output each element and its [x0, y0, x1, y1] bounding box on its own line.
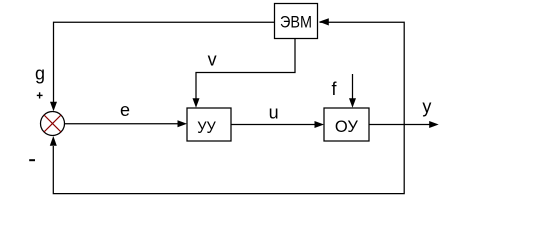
summing junction [41, 112, 65, 136]
arrowhead into УУ left side [178, 120, 188, 127]
svg-text:УУ: УУ [197, 118, 216, 137]
block УУ (control unit) [187, 108, 231, 141]
summing junction red X stroke 2 [44, 115, 61, 132]
wire f: disturbance input into ОУ top [352, 74, 354, 99]
wire g: top reference input line [54, 22, 275, 102]
arrowhead into ОУ top [349, 98, 356, 108]
svg-text:u: u [269, 103, 279, 123]
arrowhead output y [429, 121, 439, 128]
wire e: summing junction to УУ [65, 123, 179, 125]
svg-text:ЭВМ: ЭВМ [280, 13, 312, 32]
svg-text:ОУ: ОУ [335, 117, 358, 136]
wire feedback: right vertical + top horizontal into ЭВМ + bottom horizontal + left vertical [53, 22, 404, 193]
label plus sign [37, 94, 43, 96]
svg-text:v: v [208, 50, 217, 70]
wire v: ЭВМ bottom to УУ top [196, 39, 295, 99]
svg-text:e: e [120, 100, 130, 120]
wire y: ОУ output [369, 124, 430, 126]
arrowhead into summing junction top [50, 102, 57, 112]
arrowhead into summing junction bottom [50, 136, 57, 146]
wire u: УУ to ОУ [231, 124, 316, 126]
summing junction red X stroke 1 [44, 115, 61, 132]
arrowhead into ОУ left side [315, 121, 325, 128]
block ОУ (controlled object) [324, 108, 369, 141]
label minus sign [29, 159, 35, 161]
svg-text:y: y [422, 97, 431, 117]
block ЭВМ (computer) [275, 4, 318, 39]
svg-text:g: g [35, 64, 45, 84]
arrowhead into ЭВМ right side [319, 18, 329, 25]
arrowhead into УУ top [193, 98, 200, 108]
